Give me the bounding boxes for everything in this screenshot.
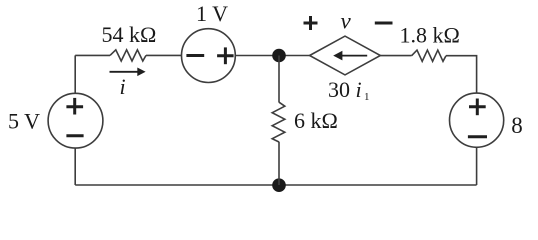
current arrow for i [110,68,146,77]
svg-text:1.8 kΩ: 1.8 kΩ [400,22,460,47]
wire: dependent source to 1.8 kOhm resistor [380,55,411,57]
node B (bottom junction dot) [272,178,286,192]
value label 30 i1 [328,77,370,103]
svg-text:i: i [120,74,126,99]
svg-text:1: 1 [364,91,370,103]
svg-text:54 kΩ: 54 kΩ [102,22,157,47]
svg-text:1 V: 1 V [196,1,228,26]
label minus polarity of v [375,22,393,25]
wire: 1.8 kOhm resistor to top-right corner and down [446,56,477,93]
wire: left vertical, top corner to 5 V source [74,55,76,93]
voltage source 8 [450,93,504,147]
wire: node A down to 6 kOhm resistor [278,56,280,103]
svg-text:8: 8 [511,113,523,138]
wire: 54 kOhm resistor to 1 V source [146,54,182,56]
wire: 5 V source to bottom-left corner [74,148,76,185]
wire: 8 source to bottom-right corner [476,147,478,185]
voltage source 5 V [48,93,103,148]
node A (top junction dot) [272,49,286,63]
svg-text:v: v [341,8,352,33]
resistor 1.8 kOhm (zigzag) [412,50,446,61]
resistor 54 kOhm (zigzag) [110,50,146,61]
svg-text:5 V: 5 V [8,109,40,134]
svg-text:6 kΩ: 6 kΩ [294,108,338,133]
svg-text:i: i [356,77,362,102]
wire: top wire, left corner to 54 kOhm resistor [75,54,110,56]
wire: bottom wire [75,184,476,186]
dependent source 30 i1 (diamond with left arrow) [310,36,381,75]
label plus polarity of v [304,16,318,30]
resistor 6 kOhm (vertical zigzag) [272,102,285,142]
svg-text:30: 30 [328,77,350,102]
wire: 6 kOhm resistor to node B [278,142,280,185]
wire: 1 V source to node A [235,55,309,57]
voltage source 1 V [182,29,236,83]
